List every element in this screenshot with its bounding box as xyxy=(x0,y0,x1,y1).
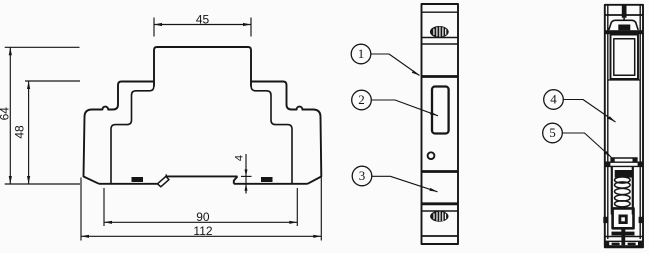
front view: rail recess line xyxy=(166,175,238,177)
svg-text:4: 4 xyxy=(234,155,246,161)
svg-text:2: 2 xyxy=(358,92,365,107)
rear view clip cavity walls xyxy=(612,166,633,214)
rear view bottom dashes xyxy=(612,243,620,246)
rear view screw shaft xyxy=(623,18,625,21)
front view: hook notch xyxy=(165,174,167,177)
dimension 90 arrows xyxy=(104,221,297,224)
rear view heavy band xyxy=(605,30,643,34)
front view: inner face line left xyxy=(111,87,154,184)
dimension 90 extension lines xyxy=(104,188,297,226)
dimension texts xyxy=(0,12,557,238)
rear view inner walls xyxy=(608,5,640,239)
rear view bottom line B xyxy=(605,240,643,242)
front view: DIN clip hook parallelogram xyxy=(158,176,170,186)
front view: shoulder1 right xyxy=(251,82,287,105)
callout 1 leader xyxy=(371,54,420,76)
rear view clamp block xyxy=(618,25,630,31)
svg-text:5: 5 xyxy=(549,125,556,140)
front view: right foot pad xyxy=(261,177,273,182)
side view body xyxy=(422,4,459,244)
front view: bottom edge left xyxy=(99,183,158,185)
front view: outer contour plateau xyxy=(154,47,251,87)
side view heavy seam xyxy=(422,75,459,78)
dimension 90 line xyxy=(104,221,297,223)
callout 3 leader xyxy=(372,176,438,192)
dimension 4 arrows xyxy=(245,169,248,190)
rear view screw stem xyxy=(622,5,627,18)
callout 4 leader xyxy=(563,100,615,123)
dimension 64 extension lines xyxy=(5,47,80,184)
side view LED xyxy=(428,152,435,159)
svg-text:64: 64 xyxy=(0,107,12,121)
svg-text:4: 4 xyxy=(550,92,557,107)
dimension 45 line xyxy=(154,24,251,26)
side view heavy seam lower xyxy=(422,170,459,173)
callout 2 leader xyxy=(371,100,438,116)
rear view clamp dome xyxy=(609,20,638,30)
rear view bench bottom line xyxy=(606,165,643,167)
dimension 64 arrows xyxy=(9,47,12,184)
callout 3 circle xyxy=(352,166,372,186)
rear view top line xyxy=(605,14,643,16)
rear view nut outer xyxy=(613,208,634,228)
dimension 48 arrows xyxy=(27,81,30,184)
rear view clip bench top line xyxy=(610,157,637,159)
front view: left wall and bevel xyxy=(84,117,100,184)
dimension 45 extension lines xyxy=(154,18,251,37)
front view: recess right step xyxy=(234,176,238,183)
dimension 112 line xyxy=(81,235,321,237)
side view bottom screw xyxy=(430,211,448,222)
dimension 4 line xyxy=(245,154,247,194)
front view: shoulder2 left with bump xyxy=(85,105,119,118)
rear view spring coils xyxy=(615,177,631,207)
rear view bottom thick edge xyxy=(604,245,644,248)
side view lower band xyxy=(422,202,459,205)
callout 5 circle xyxy=(543,123,563,143)
front view: right wall and bevel xyxy=(308,117,322,184)
dimension 112 extension lines xyxy=(81,178,321,241)
svg-text:48: 48 xyxy=(13,125,27,139)
side view window xyxy=(432,87,449,134)
dimension 64 line xyxy=(9,47,11,184)
rear view nut center xyxy=(619,215,628,225)
svg-text:3: 3 xyxy=(359,168,366,183)
rear view side tabs xyxy=(603,217,607,223)
dimension 4 extension line xyxy=(241,175,252,177)
rear view bottom corner blocks xyxy=(605,242,610,248)
front view: inner face line right xyxy=(251,87,292,184)
svg-text:112: 112 xyxy=(193,224,212,238)
side view terminal lines top xyxy=(422,38,459,45)
rear view outer body xyxy=(605,5,643,248)
side view top cap line xyxy=(422,11,459,13)
rear view bench inner blocks xyxy=(610,158,614,162)
svg-text:45: 45 xyxy=(196,12,210,26)
callout 4 circle xyxy=(544,90,564,110)
svg-text:90: 90 xyxy=(196,210,210,224)
callout 2 circle xyxy=(352,90,372,110)
rear view stem and bar xyxy=(621,228,625,232)
rear view bench mid line xyxy=(606,161,643,163)
dimension 48 extension line xyxy=(25,80,80,82)
rear view spring top block xyxy=(615,170,633,178)
front view: left foot pad xyxy=(132,177,144,182)
rear view label frame inner xyxy=(614,39,635,76)
callout 1 circle xyxy=(351,44,371,64)
rear view mid line xyxy=(608,79,640,81)
rear view bench outer blocks xyxy=(606,162,611,166)
front view: shoulder2 right with bump xyxy=(287,105,321,118)
front view: bottom edge right xyxy=(234,183,308,185)
callout 5 leader xyxy=(562,133,611,158)
side view bottom cap line xyxy=(422,235,459,237)
svg-text:1: 1 xyxy=(358,46,365,61)
rear view bottom central bar xyxy=(621,232,625,245)
front view: shoulder1 left xyxy=(118,82,154,105)
side view top screw xyxy=(430,26,449,38)
rear view label frame outer xyxy=(611,35,639,80)
dimension 45 arrows xyxy=(154,23,251,26)
dimension 48 line xyxy=(28,81,30,184)
dimension 112 arrows xyxy=(81,235,321,238)
rear view bottom line A xyxy=(605,236,643,238)
